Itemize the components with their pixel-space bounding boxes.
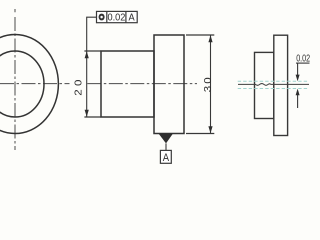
- 0.02 up arrow: [296, 89, 300, 96]
- datum letter A: [163, 152, 170, 164]
- right view small cylinder rectangle: [255, 52, 274, 118]
- feature control frame divider 1: [106, 11, 108, 22]
- dim20 text: [73, 76, 84, 96]
- svg-text:A: A: [128, 12, 135, 24]
- feature control frame box: [97, 11, 138, 22]
- tolerance value 0.02: [107, 12, 125, 24]
- 0.02 leader shoulder line: [296, 62, 310, 64]
- dim20 extension line top: [84, 50, 101, 52]
- dim30 text: [203, 75, 214, 92]
- 0.02 down arrow: [296, 75, 300, 82]
- feature control frame divider 2: [125, 11, 127, 22]
- small cylinder rectangle: [101, 51, 154, 117]
- dim30 dimension line: [210, 35, 212, 134]
- datum box: [160, 150, 171, 163]
- left view vertical centerline top dash: [14, 9, 16, 12]
- svg-text:A: A: [163, 152, 170, 164]
- dim30 extension line top: [186, 34, 214, 36]
- 0.02 lower arrow line: [297, 92, 299, 108]
- svg-text:20: 20: [73, 76, 84, 96]
- dim20 dimension line: [86, 51, 88, 117]
- tolerance zone lower boundary (cyan): [238, 88, 309, 90]
- svg-text:0.02: 0.02: [107, 12, 125, 24]
- 0.02 upper arrow line: [297, 63, 299, 78]
- large cylinder rectangle: [154, 35, 184, 134]
- left view horizontal centerline: [0, 83, 70, 85]
- leader from dim20 to feature control frame: [87, 17, 97, 51]
- dim30 arrow up: [208, 35, 212, 42]
- datum triangle: [159, 134, 174, 144]
- dim30 extension line bottom: [186, 133, 214, 135]
- datum reference letter A: [128, 12, 135, 24]
- svg-text:30: 30: [203, 75, 214, 92]
- 0.02 zone label text: [296, 53, 310, 65]
- middle view horizontal centerline: [87, 83, 197, 85]
- right view large cylinder rectangle: [274, 35, 288, 135]
- dim30 arrow down: [208, 126, 212, 133]
- concentricity symbol (donut ring): [99, 14, 105, 21]
- outer circle (⌀30 end view): [0, 35, 58, 134]
- left view vertical centerline: [14, 17, 16, 150]
- actual axis wavy line: [238, 84, 309, 86]
- dim20 extension line bottom: [84, 116, 101, 118]
- inner circle (⌀20 end view): [0, 51, 44, 117]
- dim20 arrow up: [85, 51, 89, 58]
- datum leader line: [165, 143, 167, 150]
- dim20 arrow down: [85, 110, 89, 117]
- tolerance zone upper boundary (cyan): [238, 80, 309, 82]
